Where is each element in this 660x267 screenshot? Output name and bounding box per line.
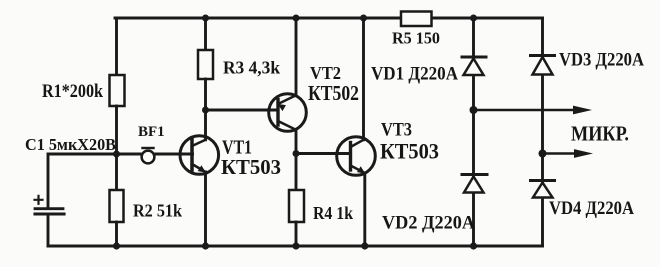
wire VT2 collector down to node <box>295 130 298 154</box>
wire lower output arrow <box>543 149 594 158</box>
wire R1 bottom to node <box>115 106 118 154</box>
node VT1 emitter at bottom rail <box>202 242 209 249</box>
diode VD4 <box>531 181 555 198</box>
wire upper output arrow <box>474 106 593 115</box>
svg-text:VD1 Д220А: VD1 Д220А <box>371 65 459 85</box>
node top rail above VT3 <box>360 15 367 22</box>
wire VD3/VD4 column <box>541 18 544 246</box>
svg-text:R5 150: R5 150 <box>392 29 440 48</box>
wire rail to R3 <box>204 18 207 50</box>
svg-text:КТ502: КТ502 <box>308 81 359 105</box>
svg-text:BF1: BF1 <box>138 124 165 140</box>
wire node to R2 <box>115 154 118 190</box>
wire VD1/VD2 column <box>472 18 475 246</box>
node VD2 bottom <box>470 242 477 249</box>
wire VT3 collector up to top rail <box>362 18 365 140</box>
node VT3 emitter at bottom rail <box>361 242 368 249</box>
svg-text:C1 5мкХ20В: C1 5мкХ20В <box>25 135 116 154</box>
wire R2 bottom to bottom rail <box>115 222 118 246</box>
svg-text:КТ503: КТ503 <box>380 139 439 164</box>
svg-text:R2 51k: R2 51k <box>133 201 182 221</box>
node VD3/VD4 midpoint <box>539 150 547 158</box>
wire top supply rail <box>115 17 543 20</box>
wire VT2 emitter up to top rail <box>295 18 298 95</box>
svg-text:R1*200k: R1*200k <box>42 81 103 102</box>
transistor VT3 <box>337 137 376 176</box>
resistor R2 <box>110 190 124 222</box>
svg-text:VT3: VT3 <box>381 120 412 141</box>
wire C1 bottom to bottom rail <box>47 214 50 246</box>
wire VT1 collector up to node <box>204 110 207 140</box>
node top rail above R3 <box>202 15 209 22</box>
node VT2 collector / R4 / VT3 base <box>293 150 300 157</box>
wire VT3 emitter down to bottom rail <box>363 173 366 246</box>
resistor R3 <box>198 50 213 79</box>
wire node to VT3 base <box>296 152 351 155</box>
resistor R5 <box>401 12 432 27</box>
wire R4 bottom to bottom rail <box>295 222 298 246</box>
svg-text:VD3 Д220А: VD3 Д220А <box>559 51 645 71</box>
svg-text:VT2: VT2 <box>310 63 341 83</box>
svg-text:R4 1k: R4 1k <box>313 203 353 223</box>
diode VD1 <box>462 57 486 75</box>
transistor VT2 <box>269 94 307 132</box>
wire node to R4 <box>295 154 298 191</box>
diode VD3 <box>531 56 555 75</box>
wire node to VT2 base <box>206 109 279 112</box>
wire node to C1 (left horizontal with corner down) <box>48 154 142 208</box>
node top rail above VT2 <box>293 15 300 22</box>
node R1/R2/C1 junction <box>113 151 120 158</box>
resistor R4 <box>289 190 304 222</box>
wire left branch top (rail corner down to R1) <box>115 18 118 75</box>
wire BF1 to VT1 base <box>154 153 192 156</box>
capacitor C1 plates <box>35 207 63 210</box>
svg-text:VD4 Д220А: VD4 Д220А <box>549 199 635 219</box>
node VD1/VD2 midpoint <box>470 106 478 114</box>
node R4 bottom <box>292 242 299 249</box>
node R2 bottom <box>113 242 120 249</box>
resistor R1 <box>110 75 125 106</box>
wire R3 bottom to node <box>204 79 207 110</box>
svg-text:VD2 Д220А: VD2 Д220А <box>382 214 476 234</box>
transistor VT1 <box>180 136 219 175</box>
microphone BF1 <box>142 151 155 164</box>
diode VD2 <box>462 175 487 193</box>
svg-text:КТ503: КТ503 <box>221 155 281 179</box>
node top rail right of R5 <box>470 15 477 22</box>
capacitor C1 plus sign <box>35 196 43 204</box>
svg-text:МИКР.: МИКР. <box>571 122 629 146</box>
svg-text:R3 4,3k: R3 4,3k <box>223 58 280 78</box>
node R3 bottom / VT2 base <box>202 107 209 114</box>
wire VT1 emitter down to bottom rail <box>204 172 207 246</box>
wire bottom rail <box>48 245 543 248</box>
